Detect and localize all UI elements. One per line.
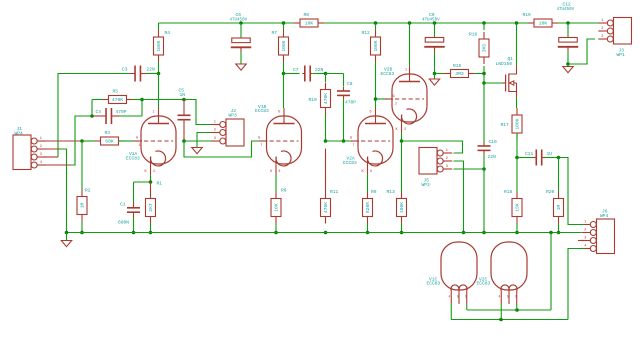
junction V2B grid tap bbox=[374, 97, 378, 101]
wire C4 right up bbox=[120, 100, 143, 117]
svg-text:470K: 470K bbox=[112, 97, 123, 103]
wire J1 pin3 up bbox=[43, 141, 58, 157]
tube V2C heater bbox=[477, 242, 528, 304]
ground main bbox=[61, 241, 71, 247]
resistor R11 bbox=[321, 149, 339, 224]
junction heater B V2C bbox=[499, 318, 503, 322]
junction rail R1 bbox=[149, 231, 153, 235]
svg-text:15K: 15K bbox=[515, 203, 521, 212]
wire to C8 bbox=[326, 74, 344, 87]
junction R3 input node bbox=[80, 139, 84, 143]
svg-text:4: 4 bbox=[499, 295, 501, 299]
svg-text:47U450V: 47U450V bbox=[557, 8, 575, 12]
wire R5C4 to C5 node bbox=[133, 99, 185, 101]
svg-text:C7: C7 bbox=[293, 67, 299, 73]
resistor R8 bbox=[294, 12, 324, 27]
junction R10 top bbox=[324, 72, 328, 76]
svg-text:C4: C4 bbox=[96, 109, 102, 115]
wire C12 top bbox=[567, 23, 569, 38]
resistor R7 bbox=[272, 30, 289, 62]
wire R12 top bbox=[375, 23, 377, 30]
svg-text:R15: R15 bbox=[453, 63, 462, 69]
connector J5 bbox=[419, 148, 452, 189]
capacitor C9 bbox=[422, 12, 445, 52]
connector J2 bbox=[211, 108, 244, 146]
svg-text:10K: 10K bbox=[539, 21, 548, 27]
svg-text:100K: 100K bbox=[373, 40, 379, 51]
wire R2 bottom bbox=[81, 222, 83, 233]
svg-text:1: 1 bbox=[214, 120, 216, 124]
svg-text:3M3: 3M3 bbox=[455, 71, 464, 77]
transistor Q1 bbox=[496, 56, 517, 97]
junction rail C9 bbox=[433, 21, 437, 25]
junction R15 ground node bbox=[433, 72, 437, 76]
wire V1B cathode down bbox=[275, 175, 277, 192]
svg-text:8: 8 bbox=[370, 169, 372, 173]
svg-text:3: 3 bbox=[214, 137, 216, 141]
svg-text:2: 2 bbox=[40, 145, 42, 149]
wire R16 bottom bbox=[483, 66, 485, 74]
svg-text:1M: 1M bbox=[80, 203, 86, 209]
wire B+ rail segment left bbox=[159, 22, 301, 24]
resistor R17 bbox=[501, 108, 523, 140]
wire R16 top bbox=[483, 23, 485, 30]
wire cathode to R13 bbox=[401, 141, 403, 192]
svg-text:1: 1 bbox=[584, 220, 586, 224]
resistor R3 bbox=[95, 130, 125, 145]
junction rail C12 bbox=[566, 21, 570, 25]
capacitor C11 bbox=[525, 150, 552, 166]
wire C3 left segment bbox=[58, 74, 129, 142]
svg-text:470P: 470P bbox=[345, 100, 356, 106]
wire plate node to C7 bbox=[284, 73, 300, 75]
svg-text:5: 5 bbox=[457, 295, 459, 299]
svg-text:470K: 470K bbox=[323, 93, 329, 104]
resistor R13 bbox=[387, 189, 407, 224]
wire to ground C9 bbox=[434, 74, 436, 80]
svg-text:R12: R12 bbox=[362, 30, 371, 36]
junction rail R7 bbox=[282, 21, 286, 25]
ground C12 bbox=[563, 67, 573, 73]
svg-text:1: 1 bbox=[153, 111, 155, 115]
junction C5 bottom bbox=[182, 139, 186, 143]
junction rail Q1 drain bbox=[515, 21, 519, 25]
wire J6 pin3 stub bbox=[578, 240, 584, 242]
svg-text:9: 9 bbox=[465, 295, 467, 299]
svg-text:470K: 470K bbox=[323, 202, 329, 213]
junction gate node top bbox=[482, 72, 486, 76]
junction rail R18 bbox=[515, 231, 519, 235]
svg-text:C3: C3 bbox=[122, 67, 128, 73]
wire V2B anode bbox=[409, 23, 411, 66]
junction rail left end bbox=[65, 231, 69, 235]
svg-text:3: 3 bbox=[584, 236, 586, 240]
svg-text:R3: R3 bbox=[105, 130, 111, 136]
svg-text:R19: R19 bbox=[523, 12, 532, 18]
wire R18 bottom bbox=[516, 224, 518, 233]
junction C11 right node bbox=[557, 156, 561, 160]
svg-text:1N: 1N bbox=[180, 92, 186, 98]
connector J1 bbox=[13, 126, 46, 170]
svg-text:4: 4 bbox=[40, 161, 42, 165]
svg-text:WP4: WP4 bbox=[15, 131, 24, 137]
junction rail C1 bbox=[132, 231, 136, 235]
wire J5 pin2 path bbox=[454, 161, 464, 233]
wire B+ rail segment middle bbox=[318, 22, 534, 24]
svg-text:10K: 10K bbox=[274, 203, 280, 212]
wire C9 bottom bbox=[434, 52, 436, 74]
junction rail V2B anode bbox=[408, 21, 412, 25]
svg-text:22N: 22N bbox=[315, 67, 324, 73]
wire C11 left bbox=[517, 157, 533, 159]
resistor R10 bbox=[309, 83, 331, 115]
junction V1A cathode node bbox=[149, 180, 153, 184]
junction R5 right node bbox=[140, 98, 144, 102]
wire R17 bottom bbox=[516, 133, 518, 158]
capacitor C6 bbox=[230, 12, 252, 52]
wire C12 bottom bbox=[567, 52, 569, 65]
wire V1C pin9 down bbox=[466, 304, 468, 310]
wire to R3 bbox=[82, 140, 95, 142]
wire heater rail A drop bbox=[467, 233, 551, 311]
wire V2C pin4 down bbox=[500, 304, 502, 320]
wire R6 bottom bbox=[275, 224, 277, 233]
resistor R6 bbox=[271, 188, 287, 224]
wire J1 pin4 up bbox=[43, 116, 92, 165]
wire R4 to plate node bbox=[158, 62, 160, 74]
wire J2 pin3 bbox=[184, 140, 211, 142]
svg-text:WP3: WP3 bbox=[422, 182, 431, 188]
svg-text:4: 4 bbox=[449, 295, 451, 299]
wire R18 top bbox=[516, 158, 518, 192]
svg-text:ECC83: ECC83 bbox=[381, 71, 395, 77]
svg-text:G: G bbox=[350, 137, 352, 141]
wire C8 bottom bbox=[343, 100, 345, 142]
svg-text:7: 7 bbox=[261, 143, 263, 147]
svg-text:6: 6 bbox=[370, 111, 372, 115]
resistor R9 bbox=[363, 189, 377, 224]
tube V2B bbox=[381, 66, 428, 133]
wire C6 bottom bbox=[240, 52, 242, 64]
capacitor C5 bbox=[178, 87, 191, 141]
wire grid jog V1B bbox=[184, 141, 262, 157]
resistor R20 bbox=[546, 189, 564, 224]
svg-text:C6: C6 bbox=[236, 12, 242, 18]
wire R1 bottom bbox=[150, 224, 152, 233]
junction rail C6 bbox=[239, 21, 243, 25]
svg-text:ECC83: ECC83 bbox=[343, 160, 357, 166]
svg-text:4: 4 bbox=[584, 244, 586, 248]
svg-text:R13: R13 bbox=[387, 189, 396, 195]
capacitor C10 bbox=[478, 139, 498, 160]
junction rail R12 bbox=[374, 21, 378, 25]
junction C11 left node bbox=[515, 156, 519, 160]
capacitor C7 bbox=[293, 66, 324, 82]
svg-text:WP4: WP4 bbox=[600, 213, 609, 219]
junction gate node bbox=[482, 81, 486, 85]
svg-text:68K: 68K bbox=[105, 139, 114, 145]
svg-text:R6: R6 bbox=[281, 188, 287, 194]
wire R7 top bbox=[283, 23, 285, 30]
wire C9 node to R15 bbox=[435, 73, 444, 75]
svg-text:C11: C11 bbox=[525, 151, 534, 157]
svg-text:10K: 10K bbox=[305, 21, 314, 27]
resistor R16 bbox=[469, 32, 489, 65]
junction rail C10 bbox=[482, 231, 486, 235]
wire J1 pin1 to R3 node bbox=[43, 140, 82, 142]
wire C5 to J2 pin1 bbox=[184, 100, 211, 125]
wire C10 top bbox=[483, 83, 485, 142]
svg-text:2: 2 bbox=[395, 102, 397, 106]
svg-text:9: 9 bbox=[515, 295, 517, 299]
wire R4 top bbox=[158, 23, 160, 30]
capacitor C12 bbox=[557, 2, 579, 52]
svg-text:2K7: 2K7 bbox=[148, 203, 154, 212]
connector J6 bbox=[581, 209, 614, 254]
capacitor C1 bbox=[118, 202, 140, 226]
junction C8 bottom bbox=[342, 139, 346, 143]
wire J1 pin2 down bbox=[43, 149, 66, 233]
svg-text:C10: C10 bbox=[489, 139, 498, 145]
wire C10 bottom bbox=[483, 155, 485, 233]
svg-text:680N: 680N bbox=[118, 220, 129, 226]
wire V2A grid wire bbox=[326, 140, 354, 142]
junction rail heater A bbox=[549, 231, 553, 235]
svg-text:LND150: LND150 bbox=[496, 61, 513, 67]
wire ground rail bbox=[67, 232, 582, 234]
wire B+ rail segment right bbox=[552, 22, 604, 24]
svg-text:100K: 100K bbox=[281, 40, 287, 51]
wire R10 lead bbox=[325, 74, 327, 83]
svg-text:R17: R17 bbox=[501, 122, 510, 128]
resistor R19 bbox=[523, 12, 559, 27]
wire R2 top bbox=[81, 141, 83, 190]
resistor R12 bbox=[362, 30, 381, 62]
ground C6 bbox=[236, 64, 246, 70]
ground J2 bbox=[192, 148, 202, 154]
svg-text:ECC83: ECC83 bbox=[477, 281, 491, 287]
svg-text:ECC83: ECC83 bbox=[427, 281, 441, 287]
junction C10 line pin3 bbox=[482, 167, 486, 171]
svg-text:1M: 1M bbox=[556, 205, 562, 211]
svg-text:7: 7 bbox=[353, 143, 355, 147]
svg-text:1: 1 bbox=[446, 149, 448, 153]
svg-text:R11: R11 bbox=[330, 189, 339, 195]
tube V1C heater bbox=[427, 242, 478, 304]
wire V2B grid bbox=[376, 98, 388, 100]
svg-text:47U450V: 47U450V bbox=[230, 19, 248, 23]
wire R10 bottom bbox=[325, 115, 327, 142]
wire plate node to V1A anode bbox=[158, 74, 160, 109]
wire J5 pin1 path bbox=[402, 141, 463, 153]
svg-text:R4: R4 bbox=[165, 30, 171, 36]
junction rail R13 bbox=[400, 231, 404, 235]
wire C4 node up bbox=[92, 100, 103, 117]
svg-text:1: 1 bbox=[40, 137, 42, 141]
capacitor C3 bbox=[122, 66, 155, 82]
wire V1A cathode down bbox=[150, 175, 152, 183]
junction heater A V2C bbox=[515, 308, 519, 312]
wire C7 to R10 node bbox=[313, 73, 326, 75]
svg-text:R16: R16 bbox=[469, 32, 478, 38]
junction V2B cathode node bbox=[400, 139, 404, 143]
svg-text:G: G bbox=[258, 137, 260, 141]
junction rail R9 bbox=[366, 231, 370, 235]
junction rail R2 bbox=[80, 231, 84, 235]
wire V2B cathode down bbox=[401, 133, 403, 142]
svg-text:2: 2 bbox=[601, 27, 603, 31]
junction rail R11 bbox=[324, 231, 328, 235]
wire V2A cathode down bbox=[367, 175, 369, 192]
svg-text:R1: R1 bbox=[157, 181, 163, 187]
svg-text:8: 8 bbox=[279, 169, 281, 173]
svg-text:3: 3 bbox=[601, 35, 603, 39]
wire C6 top bbox=[240, 23, 242, 38]
wire R3 to V1A grid bbox=[119, 140, 134, 142]
svg-text:C8: C8 bbox=[347, 81, 353, 87]
wire to C1 bbox=[134, 182, 151, 203]
wire J2 pin2 to ground bbox=[197, 133, 211, 148]
svg-text:470P: 470P bbox=[116, 109, 127, 115]
wire R20 top bbox=[558, 158, 560, 192]
resistor R1 bbox=[146, 181, 163, 224]
wire J5 pin3 path bbox=[454, 168, 485, 170]
svg-text:820R: 820R bbox=[365, 202, 371, 213]
junction C4 left node bbox=[90, 114, 94, 118]
ground C9 bbox=[429, 79, 439, 85]
svg-text:100K: 100K bbox=[399, 202, 405, 213]
svg-text:5: 5 bbox=[507, 295, 509, 299]
wire plate node to V1B anode bbox=[283, 74, 285, 109]
junction V1A plate node bbox=[157, 72, 161, 76]
svg-text:2: 2 bbox=[584, 228, 586, 232]
svg-text:C9: C9 bbox=[429, 12, 435, 18]
wire ground stub bbox=[66, 233, 68, 241]
svg-text:3: 3 bbox=[446, 165, 448, 169]
wire gate to Q1 bbox=[484, 82, 504, 84]
svg-text:3: 3 bbox=[40, 153, 42, 157]
wire V1C pin4 down bbox=[450, 304, 452, 320]
wire R7 to V1B plate node bbox=[283, 62, 285, 74]
svg-text:2: 2 bbox=[446, 157, 448, 161]
svg-text:3: 3 bbox=[153, 169, 155, 173]
svg-text:R18: R18 bbox=[504, 189, 513, 195]
svg-text:R10: R10 bbox=[309, 97, 318, 103]
wire R15 to gate node bbox=[475, 73, 485, 75]
svg-text:2: 2 bbox=[214, 128, 216, 132]
svg-text:G: G bbox=[136, 137, 138, 141]
wire C1 bottom bbox=[133, 217, 135, 233]
svg-text:R8: R8 bbox=[304, 12, 310, 18]
wire Q1 drain bbox=[516, 23, 518, 66]
wire to ground C12 bbox=[567, 64, 569, 67]
wire heater rail B bbox=[451, 319, 568, 321]
resistor R5 bbox=[103, 89, 133, 104]
svg-text:1: 1 bbox=[405, 69, 407, 73]
resistor R18 bbox=[504, 189, 522, 224]
resistor R15 bbox=[444, 63, 475, 78]
tube V1B bbox=[255, 104, 302, 175]
wire R9 bottom bbox=[367, 224, 369, 233]
wire R12 to V2A anode bbox=[375, 62, 377, 108]
wire J3 pin3 path bbox=[568, 39, 595, 64]
wire C9 top bbox=[434, 23, 436, 38]
svg-text:100K: 100K bbox=[156, 40, 162, 51]
wire V2C pin9 down bbox=[516, 304, 518, 310]
wire J6 pin1 path bbox=[559, 158, 585, 225]
junction C12 ground node bbox=[566, 62, 570, 66]
capacitor C8 bbox=[337, 81, 356, 106]
svg-text:WP3: WP3 bbox=[229, 113, 238, 119]
wire J6 pin4 path bbox=[568, 249, 584, 320]
svg-text:R5: R5 bbox=[113, 89, 119, 95]
svg-text:R7: R7 bbox=[272, 30, 278, 36]
svg-text:2: 2 bbox=[139, 143, 141, 147]
junction rail R20 bbox=[557, 231, 561, 235]
wire R20 bottom bbox=[558, 224, 560, 233]
wire gate node bbox=[483, 74, 485, 84]
wire C3 to plate node bbox=[147, 73, 159, 75]
resistor R4 bbox=[154, 30, 171, 62]
svg-text:ECC83: ECC83 bbox=[126, 155, 140, 161]
svg-text:3M3: 3M3 bbox=[482, 44, 488, 53]
connector J3 bbox=[598, 18, 631, 59]
wire C11 right bbox=[546, 157, 559, 159]
svg-text:R9: R9 bbox=[371, 189, 377, 195]
svg-text:C12: C12 bbox=[563, 2, 572, 8]
svg-text:100K: 100K bbox=[515, 118, 521, 129]
svg-text:22N: 22N bbox=[147, 67, 156, 73]
tube V2A bbox=[343, 108, 393, 175]
svg-text:C1: C1 bbox=[120, 202, 126, 208]
tube V1A bbox=[126, 108, 176, 175]
svg-text:R20: R20 bbox=[546, 189, 555, 195]
junction C5 top bbox=[182, 98, 186, 102]
junction rail R16 bbox=[482, 21, 486, 25]
junction V1B plate node bbox=[282, 72, 286, 76]
svg-text:1: 1 bbox=[601, 19, 603, 23]
wire Q1 source bbox=[516, 97, 518, 108]
svg-text:1U: 1U bbox=[547, 151, 553, 157]
resistor R2 bbox=[77, 188, 91, 222]
junction rail R6 bbox=[274, 231, 278, 235]
svg-text:47U450V: 47U450V bbox=[422, 19, 440, 23]
svg-text:ECC83: ECC83 bbox=[255, 108, 269, 114]
svg-text:R2: R2 bbox=[85, 188, 91, 194]
junction V2A grid node bbox=[324, 139, 328, 143]
junction rail J5 pin2 bbox=[462, 231, 466, 235]
svg-text:G: G bbox=[393, 95, 395, 99]
svg-text:WP1: WP1 bbox=[617, 52, 626, 58]
capacitor C4 bbox=[93, 108, 127, 124]
svg-text:6: 6 bbox=[278, 111, 280, 115]
wire R13 bottom bbox=[401, 224, 403, 233]
svg-text:22N: 22N bbox=[488, 154, 497, 160]
svg-text:3: 3 bbox=[404, 127, 406, 131]
